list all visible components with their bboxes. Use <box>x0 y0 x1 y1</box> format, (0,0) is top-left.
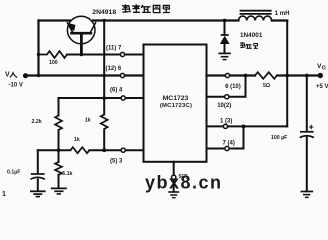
inductor core lines <box>240 11 272 14</box>
svg-text:1N4001: 1N4001 <box>240 32 263 39</box>
svg-text:10(2): 10(2) <box>217 103 231 109</box>
wire switch-node vertical (inductor out / feedback) <box>286 21 288 127</box>
capacitor 0.1uF <box>31 173 45 175</box>
svg-text:1k: 1k <box>74 137 80 143</box>
resistor 5 ohm <box>255 72 277 79</box>
node resistor-rail junction <box>37 53 40 56</box>
svg-text:0.1µF: 0.1µF <box>7 170 20 176</box>
wire pin 1(3) <box>207 125 288 127</box>
wire 1k to divider node <box>103 129 105 150</box>
svg-text:6 (10): 6 (10) <box>225 84 241 90</box>
resistor 5.1k <box>55 162 62 175</box>
svg-text:(6) 4: (6) 4 <box>110 88 123 94</box>
wire 5.1k branch <box>58 150 60 162</box>
svg-text:7 (4): 7 (4) <box>223 141 235 147</box>
pin 7(4) terminal <box>225 146 229 150</box>
diode D1 1N4001 <box>224 21 226 35</box>
transistor Q1 2N4918 <box>67 16 96 54</box>
node input terminal <box>23 73 28 78</box>
svg-text:1 mH: 1 mH <box>275 11 290 17</box>
node feedback top junction <box>102 19 106 23</box>
node input tee junction <box>37 74 40 77</box>
node VO terminal <box>318 73 323 78</box>
wire feedback vertical from collector rail <box>103 21 105 115</box>
wire 5.1k bottom <box>58 175 60 188</box>
svg-text:(11) 7: (11) 7 <box>106 46 122 52</box>
ground (5.1k) <box>51 188 67 194</box>
node divider junction left <box>57 148 61 152</box>
label Q1 chinese "or similar type" <box>122 4 170 13</box>
wire top rail right <box>93 19 239 21</box>
wire 0.1uF branch <box>37 150 39 173</box>
ground (diode) <box>218 53 230 59</box>
resistor 2.2k <box>55 116 62 130</box>
wire pin 7(4) <box>207 126 244 148</box>
svg-text:(12) 6: (12) 6 <box>106 66 122 72</box>
pin (5)3 terminal <box>121 148 125 152</box>
pin 10(2) terminal <box>225 95 229 99</box>
pin (6)4 terminal <box>121 96 125 100</box>
ground (0.1uF) <box>30 191 46 196</box>
wire pin 10(2) <box>207 76 246 97</box>
svg-text:1 (3): 1 (3) <box>220 118 232 124</box>
wire left input vertical <box>37 21 39 76</box>
svg-text:V: V <box>5 72 10 79</box>
wire stub to ground <box>173 180 175 192</box>
pin 1(3) terminal <box>223 124 227 128</box>
wire divider bottom rail to IC pin (5)3 <box>38 149 71 151</box>
svg-text:5.1k: 5.1k <box>62 171 72 177</box>
svg-text:2.2k: 2.2k <box>32 119 42 125</box>
pin (12)6 terminal <box>120 73 124 77</box>
svg-text:(MC1723C): (MC1723C) <box>160 103 192 109</box>
node sense junction <box>244 74 248 78</box>
ground (IC) <box>168 192 179 198</box>
svg-text:-10 V: -10 V <box>9 83 23 89</box>
wire resistor to VO terminal <box>277 74 318 76</box>
node divider junction right <box>102 148 106 152</box>
resistor 1k horizontal <box>70 147 89 153</box>
wire output VO from IC pin 6(10) <box>207 74 256 76</box>
svg-text:1: 1 <box>2 191 6 198</box>
inductor L1 1mH <box>239 16 272 20</box>
node cap branch junction <box>305 74 309 78</box>
label C1 plus <box>309 125 313 129</box>
node base junction <box>80 53 84 57</box>
wire top rail left <box>39 19 71 21</box>
svg-text:1k: 1k <box>85 118 91 124</box>
pin (11)7 terminal <box>120 52 124 56</box>
wire 1k to IC <box>89 149 143 151</box>
capacitor C1 100uF <box>306 76 308 132</box>
pin 5(7) terminal <box>172 175 176 179</box>
svg-text:MC1723: MC1723 <box>163 95 189 102</box>
node 1k-feedback junction <box>102 96 106 100</box>
label D1 chinese "or equivalent" <box>240 42 258 48</box>
wire 2.2k bottom <box>58 130 60 150</box>
wire base node to IC pin (11)7 <box>67 54 144 56</box>
node output-rail junction <box>285 74 289 78</box>
ground (100uF) <box>301 192 314 198</box>
op-amp U1 MC1723 box <box>144 45 207 162</box>
svg-text:100 µF: 100 µF <box>271 135 287 141</box>
wire 2.2k top connection <box>58 98 60 116</box>
resistor 100 ohm <box>39 51 68 58</box>
wire pin (6)4 <box>59 97 144 99</box>
resistor 1k vertical <box>101 115 108 129</box>
svg-text:+5 V: +5 V <box>316 84 328 90</box>
node pin3-pin4 junction <box>242 125 246 129</box>
svg-text:2N4918: 2N4918 <box>92 9 116 16</box>
pin 6(10) terminal <box>225 73 229 77</box>
svg-text:100: 100 <box>49 60 58 66</box>
svg-text:(5) 3: (5) 3 <box>110 158 123 164</box>
svg-text:5Ω: 5Ω <box>263 83 270 89</box>
wire IC bottom stub pin 5(7) <box>173 162 175 175</box>
svg-text:ybx8.cn: ybx8.cn <box>145 172 223 192</box>
svg-text:O: O <box>322 65 326 71</box>
wire input to IC pin (12)6 <box>26 74 144 76</box>
